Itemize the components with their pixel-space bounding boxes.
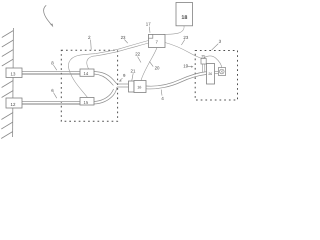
pipe 8 (top, box13 to box14) xyxy=(22,72,80,75)
display 18 xyxy=(176,3,193,26)
label 23 right xyxy=(181,35,188,45)
label 1 arrow xyxy=(44,5,54,27)
label 3 xyxy=(212,39,222,50)
svg-text:21: 21 xyxy=(131,68,136,73)
wall xyxy=(1,28,13,139)
merged pipe 4 (junction to box 21) xyxy=(117,84,129,87)
label 2 xyxy=(88,35,91,50)
svg-text:23: 23 xyxy=(121,35,126,40)
cable 20 (unit 7 to pump 22) xyxy=(141,48,157,81)
cable 23c (unit 7 to valve 25) xyxy=(165,43,202,59)
svg-text:20: 20 xyxy=(155,65,160,70)
label 4 xyxy=(161,90,164,102)
pipe from box14 to junction xyxy=(94,72,117,86)
label 22 xyxy=(135,51,141,62)
svg-text:17: 17 xyxy=(146,22,151,27)
svg-text:4: 4 xyxy=(161,96,164,101)
cable 23a (unit 7 to valve 14) xyxy=(87,43,149,69)
pump box 22 xyxy=(134,81,146,93)
svg-text:26: 26 xyxy=(208,72,212,76)
svg-text:3: 3 xyxy=(219,39,222,44)
valve 14 xyxy=(80,69,94,76)
dashed enclosure 3 (right) xyxy=(195,51,237,101)
cable arc (valve 25 to motor) xyxy=(204,56,222,68)
label 19 xyxy=(183,64,193,69)
svg-text:14: 14 xyxy=(84,71,89,76)
pump box 21 xyxy=(129,81,135,92)
label 9 (junction) xyxy=(119,73,126,81)
label 6 (bottom pipe) xyxy=(51,88,57,98)
cable (display 18 to unit 7) xyxy=(163,26,184,35)
valve 15 xyxy=(80,98,94,106)
svg-text:23: 23 xyxy=(183,35,188,40)
pipe 6 (bottom, box12 to box15) xyxy=(22,102,80,105)
label 21 xyxy=(131,68,136,80)
tap box 12 xyxy=(6,98,22,108)
svg-text:19: 19 xyxy=(183,64,188,69)
motor (fan symbol) xyxy=(214,68,225,76)
pipe from box15 to junction xyxy=(94,87,117,104)
control unit 7 xyxy=(149,35,166,48)
svg-text:18: 18 xyxy=(181,15,187,21)
svg-text:12: 12 xyxy=(11,102,16,107)
tap box 13 xyxy=(6,68,22,78)
svg-text:22: 22 xyxy=(135,51,140,56)
svg-text:15: 15 xyxy=(84,100,89,105)
pipe 4 (box 22 to unit 16) xyxy=(146,72,207,89)
cable 23b (unit 7 to valve 15) xyxy=(68,41,148,98)
label 20 (cable) xyxy=(149,61,160,70)
label 8 (top pipe) xyxy=(51,60,57,70)
svg-text:16: 16 xyxy=(137,86,141,90)
label 17 xyxy=(146,22,151,33)
unit 16 (tall box) xyxy=(207,64,215,85)
label 23 left xyxy=(121,35,128,43)
dashed enclosure 2 (left) xyxy=(61,50,117,121)
valve 25 with stub xyxy=(201,55,206,72)
svg-text:13: 13 xyxy=(11,72,16,77)
svg-text:2: 2 xyxy=(88,35,91,40)
svg-text:25: 25 xyxy=(201,55,205,59)
